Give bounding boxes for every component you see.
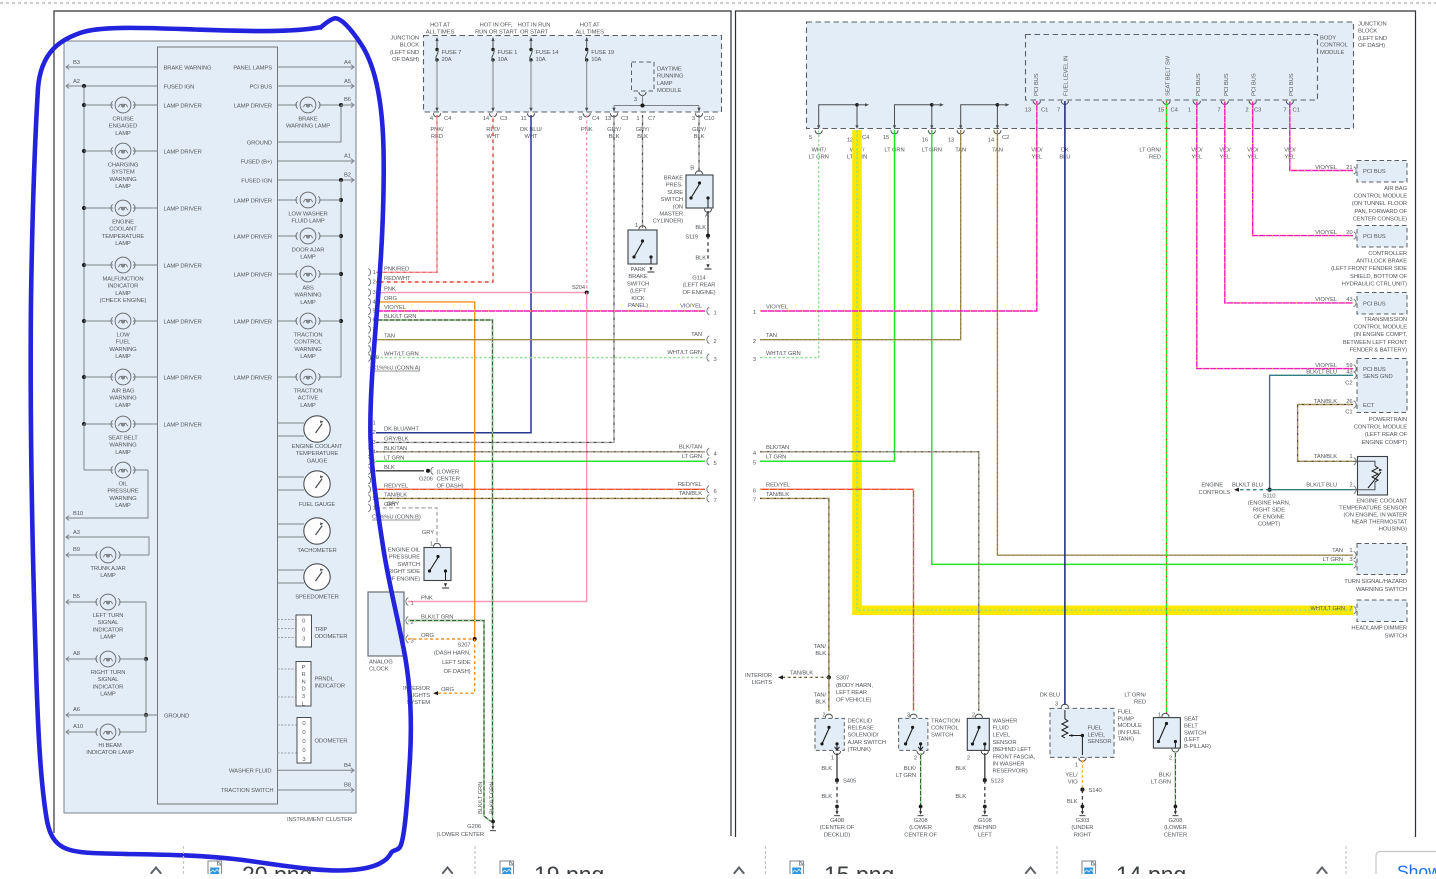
svg-text:5: 5: [714, 461, 717, 467]
svg-text:JUNCTION: JUNCTION: [390, 36, 419, 42]
svg-text:TAN/BLK: TAN/BLK: [1314, 454, 1337, 460]
svg-text:SEAT BELT SW: SEAT BELT SW: [1166, 55, 1172, 96]
svg-text:13: 13: [1025, 108, 1031, 114]
yellow highlight for WHT/LT GRN circuit: [857, 130, 1353, 610]
svg-text:PUMP: PUMP: [1118, 716, 1135, 722]
ground G208 lower: [919, 805, 923, 809]
svg-text:B3: B3: [73, 60, 80, 66]
svg-text:B10: B10: [73, 511, 84, 517]
svg-text:SOLENOID/: SOLENOID/: [848, 733, 879, 739]
turn signal hazard warning switch: [1357, 544, 1407, 575]
wire ORG S207 to interior lights arrow: [437, 639, 475, 693]
svg-text:C1: C1: [1041, 108, 1048, 114]
lamp TRUNK AJAR LAMP: [66, 554, 97, 556]
svg-text:CHARGING: CHARGING: [108, 163, 139, 169]
svg-text:SIGNAL: SIGNAL: [98, 677, 120, 683]
svg-text:20A: 20A: [442, 57, 452, 63]
svg-text:B6: B6: [344, 97, 351, 103]
svg-text:LAMP: LAMP: [300, 300, 316, 306]
svg-text:LAMP DRIVER: LAMP DRIVER: [234, 320, 272, 326]
svg-text:2: 2: [373, 430, 376, 436]
svg-text:LT GRN: LT GRN: [896, 773, 916, 779]
svg-text:WHT/LT GRN: WHT/LT GRN: [667, 350, 702, 356]
svg-text:FUEL: FUEL: [1088, 726, 1103, 732]
odometer: [278, 724, 298, 726]
svg-text:LAMP: LAMP: [300, 354, 316, 360]
svg-text:OIL: OIL: [118, 482, 128, 488]
wire LT GRN/RED bcm pin15 to seat belt switch: [1166, 101, 1168, 714]
svg-text:LAMP: LAMP: [115, 503, 131, 509]
svg-text:LAMP: LAMP: [657, 81, 673, 87]
svg-text:VIO/YEL: VIO/YEL: [384, 305, 407, 311]
svg-text:20: 20: [1346, 230, 1353, 236]
svg-text:PANEL LAMPS: PANEL LAMPS: [233, 66, 272, 72]
svg-text:SEAT: SEAT: [1184, 717, 1199, 723]
svg-text:PCI BUS: PCI BUS: [1363, 302, 1386, 308]
wire WHT/LT GRN junction pin12 to headlamp dimmer switch: [857, 130, 1353, 610]
svg-text:TACHOMETER: TACHOMETER: [297, 548, 336, 554]
svg-text:(LOWER: (LOWER: [1164, 825, 1187, 831]
svg-text:LOW: LOW: [117, 333, 131, 339]
svg-text:RUN OR START: RUN OR START: [475, 30, 517, 36]
svg-text:10A: 10A: [536, 57, 546, 63]
splice S204: [585, 290, 589, 294]
svg-text:BLK/: BLK/: [1159, 772, 1172, 778]
pin B3 brake warning wire: [66, 66, 158, 68]
wire LT GRN conn B pin5 to page edge: [376, 460, 705, 462]
svg-text:14: 14: [988, 138, 995, 144]
svg-text:INDICATOR: INDICATOR: [93, 684, 124, 690]
svg-text:OF DASH): OF DASH): [1358, 43, 1385, 49]
wire BLK S140 to G303: [1081, 790, 1083, 806]
svg-text:LEFT SIDE: LEFT SIDE: [442, 660, 471, 666]
svg-text:ENGINE: ENGINE: [112, 220, 134, 226]
svg-text:RIGHT TURN: RIGHT TURN: [91, 670, 126, 676]
svg-text:CONTROLS: CONTROLS: [1198, 490, 1230, 496]
junction block internal links: [819, 105, 857, 128]
svg-text:LOW WASHER: LOW WASHER: [288, 212, 327, 218]
right page border: [736, 11, 1416, 837]
svg-text:OF DASH): OF DASH): [392, 57, 419, 63]
svg-text:(LEFT FRONT FENDER SIDE: (LEFT FRONT FENDER SIDE: [1331, 266, 1407, 272]
wire VIO/YEL bcm to tcm: [1225, 101, 1353, 303]
svg-text:(ENGINE HARN,: (ENGINE HARN,: [1248, 500, 1291, 506]
svg-text:CENTER CONSOLE): CENTER CONSOLE): [1353, 216, 1408, 222]
svg-text:B9: B9: [73, 547, 80, 553]
lamp LEFT TURN SIGNAL INDICATOR LAMP: [66, 601, 97, 603]
wire PNK/RED fuse7 to conn A pin1: [376, 115, 437, 272]
svg-text:3: 3: [634, 97, 637, 103]
svg-text:LT GRN: LT GRN: [384, 455, 404, 461]
svg-text:OF ENGINE): OF ENGINE): [387, 576, 420, 582]
svg-text:ACTIVE: ACTIVE: [298, 396, 319, 402]
fuse output wire: [492, 60, 494, 109]
left lamp feed bus: [83, 86, 85, 470]
svg-text:SWITCH: SWITCH: [661, 197, 683, 203]
splice S140: [1080, 788, 1084, 792]
top page edge dotted rule: [0, 2, 1436, 4]
svg-text:2: 2: [1169, 756, 1172, 762]
svg-text:SWITCH: SWITCH: [1385, 633, 1407, 639]
svg-text:BLK/LT GRN: BLK/LT GRN: [421, 615, 453, 621]
svg-text:TAN/BLK: TAN/BLK: [384, 492, 407, 498]
wire BLK/TAN conn B pin4 to page edge: [376, 451, 705, 453]
svg-text:PCI BUS: PCI BUS: [1363, 234, 1386, 240]
svg-text:G208: G208: [1168, 818, 1182, 824]
svg-text:FENDER & BATTERY): FENDER & BATTERY): [1350, 347, 1408, 353]
svg-text:WASHER FLUID: WASHER FLUID: [229, 769, 272, 775]
svg-text:CONTROL MODULE: CONTROL MODULE: [1354, 325, 1408, 331]
svg-text:FLUID LAMP: FLUID LAMP: [291, 219, 324, 225]
svg-text:(LOWER: (LOWER: [909, 825, 932, 831]
svg-text:TAN/BLK: TAN/BLK: [790, 671, 813, 677]
svg-text:ORG: ORG: [441, 687, 455, 693]
svg-text:BLK: BLK: [384, 465, 395, 471]
svg-text:SIGNAL: SIGNAL: [98, 620, 120, 626]
svg-text:PNK: PNK: [384, 287, 396, 293]
svg-text:BLK: BLK: [695, 256, 706, 262]
svg-text:AJAR SWITCH: AJAR SWITCH: [848, 740, 886, 746]
svg-text:8: 8: [579, 116, 582, 122]
svg-text:BLK/LT BLU: BLK/LT BLU: [1306, 482, 1337, 488]
daytime running lamp module: [632, 62, 655, 91]
svg-text:WARNING: WARNING: [294, 347, 322, 353]
svg-text:3: 3: [302, 757, 305, 763]
svg-text:DAYTIME: DAYTIME: [657, 67, 682, 73]
svg-text:GRY/BLK: GRY/BLK: [384, 436, 409, 442]
svg-text:VIO/YEL: VIO/YEL: [766, 304, 789, 310]
svg-text:1: 1: [430, 542, 433, 548]
svg-text:2: 2: [972, 713, 975, 719]
svg-text:SEAT BELT: SEAT BELT: [108, 436, 138, 442]
fuse FUSE 19 10A: [586, 38, 588, 49]
svg-text:3: 3: [753, 357, 756, 363]
svg-text:N: N: [301, 679, 305, 685]
fuse FUSE 1 10A: [492, 38, 494, 49]
svg-text:CONTROL: CONTROL: [931, 726, 960, 732]
svg-text:C3: C3: [621, 116, 628, 122]
svg-text:BLK/TAN: BLK/TAN: [679, 444, 702, 450]
pin A2 fused ign wire: [66, 85, 158, 87]
svg-text:SENS GND: SENS GND: [1363, 374, 1393, 380]
svg-text:14.png: 14.png: [1116, 862, 1186, 875]
connector A pin brackets: [368, 269, 370, 277]
wire BLK brake pressure to S119: [707, 211, 709, 236]
svg-text:TAN/BLK: TAN/BLK: [679, 491, 702, 497]
svg-text:MALFUNCTION: MALFUNCTION: [103, 277, 144, 283]
svg-text:A1: A1: [344, 154, 351, 160]
svg-text:RED: RED: [1134, 700, 1146, 706]
svg-text:43: 43: [1346, 297, 1352, 303]
svg-text:LEFT: LEFT: [978, 832, 992, 838]
svg-text:PCI BUS: PCI BUS: [1289, 73, 1295, 96]
svg-text:HI BEAM: HI BEAM: [98, 743, 121, 749]
svg-text:2: 2: [1245, 108, 1248, 114]
svg-text:TRUNK AJAR: TRUNK AJAR: [90, 566, 125, 572]
svg-text:S204: S204: [572, 285, 586, 291]
right lamp feed bus: [340, 180, 342, 377]
svg-text:B2: B2: [344, 173, 351, 179]
wire VIO/YEL edge1 to bcm pin13: [760, 101, 1037, 311]
svg-text:PCI BUS: PCI BUS: [1363, 367, 1386, 373]
svg-text:TRACTION: TRACTION: [294, 333, 323, 339]
svg-text:HOT AT: HOT AT: [430, 23, 450, 29]
svg-text:BRAKE: BRAKE: [664, 176, 683, 182]
svg-text:2: 2: [914, 756, 917, 762]
svg-text:LAMP DRIVER: LAMP DRIVER: [164, 104, 202, 110]
svg-text:SHIELD, BOTTOM OF: SHIELD, BOTTOM OF: [1350, 274, 1407, 280]
svg-text:(DASH HARN,: (DASH HARN,: [434, 651, 471, 657]
gauge SPEEDOMETER: [278, 569, 305, 571]
svg-text:TAN: TAN: [1332, 548, 1343, 554]
svg-text:6: 6: [753, 489, 756, 495]
controller anti-lock brake module: [1357, 226, 1407, 248]
lamp HI BEAM INDICATOR LAMP: [145, 715, 147, 732]
svg-text:PARK: PARK: [631, 267, 646, 273]
air bag control module: [1357, 161, 1407, 183]
svg-text:ENGINE COMPT): ENGINE COMPT): [1361, 440, 1407, 446]
svg-text:S207: S207: [457, 643, 470, 649]
wire RED/YEL conn B pin8 to page edge: [376, 488, 705, 490]
lamp RIGHT TURN SIGNAL INDICATOR LAMP: [66, 658, 97, 660]
wire TAN/BLK conn B pin9 to page edge: [376, 497, 705, 499]
svg-text:LAMP DRIVER: LAMP DRIVER: [164, 264, 202, 270]
svg-text:FUSE 19: FUSE 19: [591, 50, 614, 56]
svg-text:CENTER OF: CENTER OF: [904, 832, 937, 838]
svg-text:LEFT TURN: LEFT TURN: [93, 613, 124, 619]
svg-text:2: 2: [753, 339, 756, 345]
svg-text:BLK/TAN: BLK/TAN: [766, 445, 789, 451]
svg-text:PANEL): PANEL): [628, 303, 648, 309]
svg-text:PRESSURE: PRESSURE: [107, 489, 138, 495]
svg-text:FUEL GAUGE: FUEL GAUGE: [299, 502, 335, 508]
svg-text:ABS: ABS: [302, 286, 314, 292]
svg-text:TEMPERATURE: TEMPERATURE: [296, 451, 339, 457]
svg-text:HOUSING): HOUSING): [1379, 527, 1407, 533]
trip odometer: [278, 619, 297, 621]
svg-text:1: 1: [1188, 108, 1191, 114]
svg-text:WARNING: WARNING: [109, 347, 137, 353]
svg-text:INDICATOR LAMP: INDICATOR LAMP: [86, 750, 134, 756]
wire TAN conn A pin8 to page edge: [376, 339, 705, 341]
svg-text:FUSED (B+): FUSED (B+): [241, 160, 273, 166]
svg-text:R: R: [301, 672, 305, 678]
svg-text:RUNNING: RUNNING: [657, 74, 684, 80]
svg-text:LEVEL: LEVEL: [1088, 732, 1106, 738]
svg-text:BLK: BLK: [815, 700, 826, 706]
svg-text:(LEFT: (LEFT: [1184, 737, 1200, 743]
svg-text:RED/YEL: RED/YEL: [678, 482, 703, 488]
svg-text:3: 3: [692, 116, 695, 122]
svg-text:12: 12: [847, 138, 853, 144]
svg-text:ENGINE OIL: ENGINE OIL: [388, 548, 421, 554]
lamp MALFUNCTION INDICATOR LAMP: [84, 264, 113, 266]
svg-text:LIGHTS: LIGHTS: [410, 693, 431, 699]
svg-text:VIO/YEL: VIO/YEL: [1315, 230, 1338, 236]
wire DK BLU bcm pin7 to fuel pump module: [1064, 101, 1066, 705]
svg-text:(LEFT REAR: (LEFT REAR: [683, 283, 716, 289]
svg-text:C1: C1: [1345, 410, 1352, 416]
svg-text:ORG: ORG: [384, 296, 398, 302]
prndl indicator: [278, 668, 297, 670]
svg-text:C7: C7: [648, 116, 655, 122]
svg-text:ALL TIMES: ALL TIMES: [426, 30, 455, 36]
svg-text:B: B: [690, 166, 694, 172]
wire PNK conn A pin3 to S204: [376, 292, 587, 294]
svg-text:A10: A10: [73, 724, 84, 730]
lamp SEAT BELT WARNING LAMP: [84, 423, 113, 425]
svg-text:PRESSURE: PRESSURE: [389, 555, 420, 561]
wire VIO/YEL conn A pin5 to page edge: [376, 310, 705, 312]
svg-text:(LEFT REAR OF: (LEFT REAR OF: [1365, 432, 1408, 438]
gauge ENGINE COOLANT TEMPERATURE GAUGE: [278, 422, 305, 424]
svg-text:S405: S405: [843, 779, 856, 785]
svg-text:TURN SIGNAL/HAZARD: TURN SIGNAL/HAZARD: [1344, 579, 1407, 585]
gauge FUEL GAUGE: [278, 476, 305, 478]
svg-text:1: 1: [1349, 548, 1352, 554]
svg-text:TRACTION SWITCH: TRACTION SWITCH: [221, 788, 274, 794]
svg-text:BLK: BLK: [955, 766, 966, 772]
svg-text:1: 1: [753, 310, 756, 316]
svg-text:LAMP DRIVER: LAMP DRIVER: [234, 273, 272, 279]
svg-text:SWITCH: SWITCH: [398, 562, 420, 568]
svg-text:(ON TUNNEL FLOOR: (ON TUNNEL FLOOR: [1352, 201, 1407, 207]
svg-text:FUEL LEVEL IN: FUEL LEVEL IN: [1064, 56, 1070, 96]
svg-text:HOT IN RUN: HOT IN RUN: [518, 23, 551, 29]
svg-text:LAMP DRIVER: LAMP DRIVER: [234, 376, 272, 382]
svg-text:59: 59: [1346, 363, 1352, 369]
svg-text:WARNING SWITCH: WARNING SWITCH: [1356, 587, 1407, 593]
svg-text:GRY: GRY: [387, 502, 399, 508]
svg-text:PCI BUS: PCI BUS: [1252, 73, 1258, 96]
wire TAN/BLK S307 to decklid switch: [828, 677, 830, 711]
svg-text:CENTER: CENTER: [1164, 832, 1187, 838]
svg-text:1: 1: [831, 756, 834, 762]
svg-text:VIO/YEL: VIO/YEL: [1315, 363, 1338, 369]
svg-text:15.png: 15.png: [824, 862, 894, 875]
svg-text:LEVEL: LEVEL: [993, 733, 1011, 739]
svg-text:BLK/LT GRN: BLK/LT GRN: [478, 782, 484, 814]
splice S123: [983, 778, 987, 782]
svg-text:FUSED IGN: FUSED IGN: [241, 179, 272, 185]
splice S405: [835, 778, 839, 782]
bcm bottom connectors: [1033, 101, 1040, 105]
svg-text:TAN: TAN: [766, 333, 777, 339]
svg-text:CLOCK: CLOCK: [369, 667, 389, 673]
svg-text:LAMP DRIVER: LAMP DRIVER: [164, 207, 202, 213]
ground G114: [706, 264, 709, 268]
svg-text:C1: C1: [1293, 108, 1300, 114]
svg-text:MODULE: MODULE: [1118, 723, 1143, 729]
svg-text:LAMP DRIVER: LAMP DRIVER: [164, 150, 202, 156]
svg-text:COOLANT: COOLANT: [109, 227, 137, 233]
wire BLK/LT GRN conn A pin6 to G206: [376, 320, 493, 822]
svg-text:INDICATOR: INDICATOR: [108, 284, 139, 290]
svg-text:2: 2: [1349, 482, 1352, 488]
lamp CHARGING SYSTEM WARNING LAMP: [84, 150, 113, 152]
pin A3 wire: [66, 537, 149, 555]
svg-text:BLK: BLK: [1067, 799, 1078, 805]
clock pin 2 BLK/LT GRN wire to G206: [406, 617, 408, 625]
instrument cluster inner box: [158, 47, 278, 804]
svg-text:C3: C3: [500, 116, 507, 122]
svg-text:OF VEHICLE): OF VEHICLE): [836, 697, 872, 703]
svg-text:ANTI-LOCK BRAKE: ANTI-LOCK BRAKE: [1356, 259, 1407, 265]
svg-text:LAMP: LAMP: [100, 635, 116, 641]
svg-text:S307: S307: [836, 676, 849, 682]
svg-text:LAMP: LAMP: [300, 403, 316, 409]
svg-text:G206: G206: [467, 824, 481, 830]
svg-text:LAMP DRIVER: LAMP DRIVER: [164, 320, 202, 326]
svg-text:A4: A4: [344, 60, 352, 66]
attachment bar collapse chevrons: [151, 867, 161, 873]
svg-text:OF ENGINE: OF ENGINE: [1253, 514, 1284, 520]
svg-text:BLK/LT GRN: BLK/LT GRN: [490, 782, 496, 814]
svg-text:FRONT FASCIA,: FRONT FASCIA,: [993, 754, 1036, 760]
svg-text:FUSE 1: FUSE 1: [498, 50, 518, 56]
washer sensor pin2 BLK to S123: [981, 751, 988, 755]
svg-text:BLK: BLK: [695, 225, 706, 231]
svg-text:HYDRAULIC CTRL UNIT): HYDRAULIC CTRL UNIT): [1342, 281, 1407, 287]
svg-text:G114: G114: [692, 276, 706, 282]
svg-text:BLK: BLK: [821, 794, 832, 800]
svg-text:BODY: BODY: [1320, 36, 1336, 42]
powertrain control module: [1357, 359, 1407, 413]
svg-text:LT GRN/: LT GRN/: [1139, 148, 1161, 154]
svg-text:19.png: 19.png: [534, 862, 604, 875]
svg-text:WHT/LT GRN: WHT/LT GRN: [384, 352, 419, 358]
svg-text:FUEL: FUEL: [1118, 710, 1133, 716]
fuse output wire: [436, 60, 438, 109]
wire TAN/BLK S307 to interior lights: [782, 676, 829, 678]
wire VIO/YEL bcm to air bag module: [1290, 101, 1353, 171]
svg-text:TRACTION: TRACTION: [931, 718, 960, 724]
lamp AIR BAG WARNING LAMP: [84, 376, 113, 378]
splice S110: [1268, 488, 1272, 492]
svg-text:(CHECK ENGINE): (CHECK ENGINE): [100, 298, 147, 304]
svg-text:AIR BAG: AIR BAG: [1384, 186, 1407, 192]
svg-text:POWERTRAIN: POWERTRAIN: [1369, 417, 1407, 423]
svg-text:16: 16: [922, 138, 928, 144]
svg-text:(LEFT: (LEFT: [630, 289, 646, 295]
fuse FUSE 14 10A: [530, 38, 532, 49]
clock pin 3 ORG wire to S207: [406, 635, 408, 643]
wire TAN junction pin14 to turn signal switch: [997, 130, 1353, 555]
svg-text:7: 7: [753, 498, 756, 504]
svg-text:(TRUNK): (TRUNK): [848, 747, 871, 753]
svg-text:(IN FUEL: (IN FUEL: [1118, 730, 1142, 736]
svg-text:FUSED IGN: FUSED IGN: [164, 85, 195, 91]
svg-text:7: 7: [714, 498, 717, 504]
svg-text:TEMPERATURE SENSOR: TEMPERATURE SENSOR: [1339, 506, 1407, 512]
attachment file icon 19.png: [500, 861, 514, 877]
traction switch pin2 BLK/LT GRN to G208: [917, 751, 924, 755]
svg-text:BLK/LT GRN: BLK/LT GRN: [384, 314, 416, 320]
transmission control module: [1357, 293, 1407, 315]
splice S119: [706, 234, 710, 238]
svg-text:HOT AT: HOT AT: [580, 23, 600, 29]
svg-text:A2: A2: [73, 79, 80, 85]
ground G208 right: [1174, 805, 1178, 809]
svg-text:TAN/: TAN/: [814, 644, 827, 650]
svg-text:INSTRUMENT CLUSTER: INSTRUMENT CLUSTER: [287, 817, 352, 823]
svg-text:A3: A3: [73, 530, 80, 536]
lamp CRUISE ENGAGED LAMP: [84, 104, 113, 106]
svg-text:(BEHIND LEFT: (BEHIND LEFT: [993, 747, 1032, 753]
svg-text:13: 13: [948, 138, 954, 144]
svg-text:1: 1: [714, 311, 717, 317]
svg-text:LAMP DRIVER: LAMP DRIVER: [164, 423, 202, 429]
